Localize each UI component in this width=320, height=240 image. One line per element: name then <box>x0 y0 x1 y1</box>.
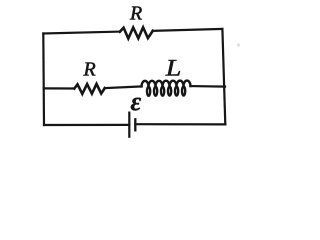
wire middle-left segment <box>44 87 75 89</box>
svg-text:R: R <box>129 3 142 25</box>
inductor L1 loop 1 <box>147 87 150 96</box>
scan speck <box>237 43 240 46</box>
inductor L1 loop 6 <box>182 87 185 96</box>
wire right vertical <box>222 29 225 125</box>
resistor R2 (middle branch) <box>74 84 105 94</box>
inductor L1 loop 3 <box>161 87 164 96</box>
wire left vertical <box>42 34 45 126</box>
wire top-right segment <box>153 29 223 31</box>
wire middle-right segment <box>191 85 226 88</box>
wire top-left segment <box>43 32 120 34</box>
wire middle segment between R2 and L1 <box>105 86 142 88</box>
svg-text:R: R <box>83 59 96 81</box>
battery B1 plate long (positive) <box>128 113 130 137</box>
inductor L1 coil humps <box>141 81 190 87</box>
resistor R1 (top branch) <box>120 27 153 38</box>
inductor L1 loop 4 <box>168 87 171 96</box>
battery B1 plate short (negative) <box>134 119 136 130</box>
label L (inductor) <box>165 55 182 81</box>
inductor L1 loop 2 <box>154 87 157 96</box>
svg-text:ε: ε <box>131 87 142 116</box>
wire bottom-left segment <box>44 124 129 126</box>
inductor L1 loop 5 <box>175 87 178 96</box>
svg-text:L: L <box>165 55 182 81</box>
wire bottom-right segment <box>135 123 225 125</box>
